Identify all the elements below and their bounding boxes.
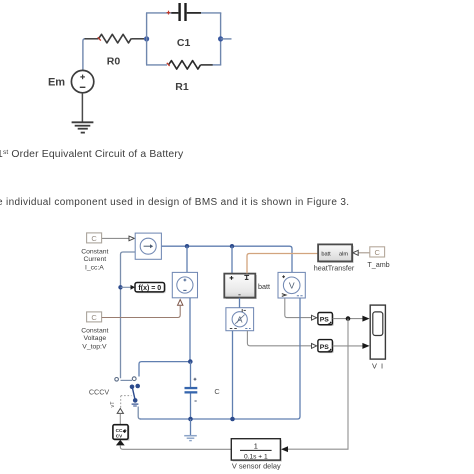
- svg-text:R1: R1: [175, 81, 189, 93]
- wire: switch common to bottom bus: [138, 407, 141, 420]
- svg-text:I_cc:A: I_cc:A: [85, 264, 104, 271]
- wire: voltmeter PS out to PS1: [285, 298, 317, 320]
- wire: feedback from scope tap: [281, 319, 348, 453]
- constant block C (current): [87, 233, 102, 243]
- wire: load top bus: [139, 362, 190, 377]
- paragraph line: [0, 197, 349, 208]
- node B (right junction dot): [218, 36, 223, 41]
- label R0: [107, 56, 121, 68]
- label C: [214, 387, 220, 396]
- constant block C T_amb: [370, 247, 385, 257]
- svg-text:PS: PS: [320, 344, 330, 351]
- label T_amb: [367, 260, 389, 269]
- svg-text:1st Order Equivalent Circuit o: 1st Order Equivalent Circuit of a Batter…: [0, 149, 184, 160]
- svg-text:C: C: [214, 387, 220, 396]
- svg-text:T_amb: T_amb: [367, 260, 389, 269]
- label C1: [177, 37, 191, 49]
- svg-text:Constant: Constant: [81, 249, 108, 256]
- node A (left junction dot): [144, 36, 149, 41]
- wire Em top vertical: [83, 39, 86, 71]
- wire: batt minus to ammeter: [239, 298, 241, 308]
- wire RC loop top edge right: [201, 12, 221, 14]
- voltage source U2 (controlled voltage source): [172, 272, 197, 297]
- svg-text:V I: V I: [372, 361, 384, 370]
- svg-text:Current: Current: [83, 256, 106, 263]
- svg-text:V sensor delay: V sensor delay: [232, 462, 281, 471]
- svg-text:Constant: Constant: [81, 328, 108, 335]
- heat transfer block heatTransfer: [318, 244, 354, 262]
- wire: constant voltage to controlled voltage source: [102, 300, 183, 318]
- node: feedback tap: [346, 316, 351, 321]
- node: bus to batt plus: [230, 244, 234, 274]
- node: bus to voltage source: [185, 244, 189, 273]
- solver block f(x)=0: [135, 283, 166, 294]
- wire: current source left return: [121, 252, 136, 378]
- svg-text:PS: PS: [320, 317, 330, 324]
- wire RC loop right edge: [220, 13, 222, 65]
- svg-text:V: V: [289, 280, 295, 290]
- label heatTransfer: [314, 263, 355, 272]
- wire: bottom bus: [140, 298, 300, 419]
- label batt: [258, 282, 270, 291]
- wire stub right of node B: [221, 38, 232, 40]
- wire RC loop bottom edge left: [146, 64, 167, 66]
- svg-text:C: C: [91, 313, 97, 322]
- resistor R0: [98, 34, 131, 43]
- svg-text:CV: CV: [116, 433, 123, 438]
- voltage source Em: [71, 70, 93, 92]
- resistor R1: [167, 61, 201, 70]
- capacitor C (smoothing): [185, 362, 198, 419]
- node: tap to solver f(x): [118, 285, 135, 290]
- current source U1 (controlled current source): [135, 233, 161, 259]
- node: capacitor top of bus: [188, 417, 193, 422]
- converter PS2 (PS-Simulink): [318, 340, 334, 354]
- wire RC loop bottom edge right: [213, 64, 222, 66]
- wire RC loop left edge: [146, 13, 148, 65]
- svg-text:Voltage: Voltage: [83, 335, 106, 342]
- converter PS1 (PS-Simulink): [318, 313, 334, 327]
- label R1: [175, 81, 189, 93]
- wire Em bottom: [81, 93, 83, 122]
- ground (electrical reference): [184, 436, 197, 441]
- svg-text:C: C: [91, 234, 97, 243]
- svg-text:f(x) = 0: f(x) = 0: [138, 285, 161, 292]
- wire: PS2 to scope: [333, 343, 370, 349]
- wire R0 left lead: [85, 38, 99, 40]
- svg-text:e individual component used in: e individual component used in design of…: [0, 197, 349, 208]
- wire: CCCV to switch control: [117, 408, 123, 424]
- wire R1 right lead: [201, 64, 214, 66]
- svg-text:CCCV: CCCV: [89, 388, 110, 397]
- switch SW (CCCV selector): [115, 377, 140, 406]
- wire: ammeter PS out to PS2: [247, 331, 316, 348]
- wire: ammeter to bottom bus: [232, 331, 234, 419]
- wire: batt thermal port to heatTransfer (orange): [247, 254, 318, 274]
- wire: top physical bus: [162, 246, 293, 272]
- svg-text:Em: Em: [48, 77, 65, 89]
- svg-text:0.1s + 1: 0.1s + 1: [244, 453, 268, 460]
- ground: [72, 122, 94, 132]
- transfer fcn V sensor delay: [231, 439, 281, 462]
- wire: PS1 to scope: [333, 316, 370, 322]
- caption: 1st Order Equivalent Circuit of a Battery: [0, 149, 184, 160]
- svg-text:C: C: [374, 248, 380, 257]
- capacitor C1: [167, 3, 201, 21]
- voltmeter U3 (voltage sensor): [278, 272, 305, 298]
- svg-text:batt: batt: [321, 252, 331, 258]
- scope V I: [370, 305, 385, 359]
- svg-text:C1: C1: [177, 37, 191, 49]
- wire: feedback into CCCV: [116, 440, 231, 450]
- wire: switch control dashed: [110, 396, 132, 408]
- node: ammeter bottom on bus: [230, 417, 235, 422]
- svg-text:V_top:V: V_top:V: [82, 343, 107, 350]
- constant block C (voltage): [87, 312, 102, 322]
- svg-text:alm: alm: [339, 252, 348, 258]
- controller CCCV block: [113, 425, 129, 441]
- svg-text:vT: vT: [110, 401, 116, 408]
- wire R0 right lead: [131, 38, 144, 40]
- svg-text:1: 1: [254, 441, 258, 450]
- label CCCV: [89, 388, 110, 397]
- label Constant Current I_cc:A: [81, 249, 108, 272]
- ammeter U4 (current sensor): [226, 308, 254, 331]
- wire: constant current to current source: [102, 236, 135, 241]
- node: load top junction: [188, 359, 193, 364]
- svg-text:heatTransfer: heatTransfer: [314, 263, 355, 272]
- wire: T_amb to heatTransfer input: [353, 250, 370, 255]
- wire: ground branch: [190, 419, 192, 435]
- label Em: [48, 77, 65, 89]
- wire: voltage source minus down: [189, 298, 191, 362]
- svg-text:batt: batt: [258, 282, 270, 291]
- wire RC loop top edge left: [146, 12, 172, 14]
- label Constant Voltage V_top:V: [81, 328, 108, 351]
- label V sensor delay: [232, 462, 281, 471]
- battery cell block batt: [224, 274, 256, 299]
- svg-text:R0: R0: [107, 56, 121, 68]
- label V I: [372, 361, 384, 370]
